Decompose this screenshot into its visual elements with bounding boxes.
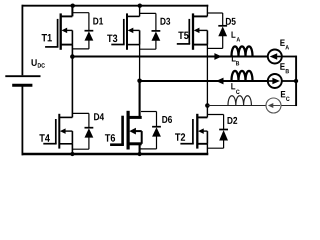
node: phase C node	[205, 103, 210, 108]
diode D6	[141, 112, 161, 149]
transistor T6	[110, 111, 142, 150]
source E_C	[266, 98, 281, 113]
label T4	[39, 134, 50, 141]
wire: leg1 phase A node down to T4 drain	[71, 57, 73, 118]
battery U_DC long plate	[5, 75, 40, 77]
node: bottom rail / leg2 junction	[138, 152, 142, 156]
arrow: phase A current direction	[214, 53, 221, 60]
label D2	[228, 117, 238, 124]
label E_A	[280, 40, 289, 50]
wire: phase B line	[140, 80, 268, 82]
wire: phase A line	[72, 56, 268, 58]
wire: phase A line (source to bus)	[282, 56, 297, 58]
transistor T1	[45, 13, 72, 49]
node: bottom rail / leg1 junction	[70, 152, 74, 156]
diode D1	[72, 13, 93, 49]
label E_B	[280, 63, 289, 73]
arrow: phase B current direction	[216, 78, 224, 85]
wire: phase B line (source to bus)	[282, 80, 297, 82]
wire: leg3 T2 source to bottom rail	[206, 144, 208, 154]
source E_B	[268, 74, 282, 88]
label E_C	[281, 91, 290, 101]
diode D5	[207, 13, 227, 48]
wire: phase C line (source to bus)	[281, 105, 297, 107]
transistor T5	[177, 13, 208, 49]
node: neutral bus / phase B junction	[294, 79, 298, 83]
diode D2	[207, 115, 228, 149]
battery U_DC short plate	[12, 84, 32, 87]
wire: leg2 drain riser (rail to T3)	[139, 6, 141, 17]
inductor L_B	[232, 71, 253, 81]
label D4	[94, 113, 104, 120]
wire: leg2 phase B node down to T6 drain	[139, 81, 141, 117]
transistor T4	[43, 114, 72, 149]
source E_A	[268, 50, 282, 64]
node: top rail / leg1 junction	[71, 3, 75, 7]
wire: neutral bus (right vertical)	[295, 56, 297, 106]
transistor T2	[180, 114, 207, 149]
label D3	[161, 18, 171, 25]
label L_A	[232, 32, 241, 42]
node: phase B node	[137, 79, 142, 84]
wire: leg3 phase C node down to T2 drain	[206, 106, 208, 118]
label T6	[105, 134, 115, 142]
wire: leg1 T1 source to phase A node	[71, 45, 73, 57]
wire: leg3 drain riser (rail corner to T5)	[206, 5, 208, 17]
label L_B	[232, 55, 239, 65]
wire: negative DC rail (bottom)	[22, 153, 209, 156]
diode D3	[140, 13, 161, 49]
wire: leg2 T3 source to phase B node	[139, 45, 141, 81]
transistor T3	[111, 13, 139, 49]
label T5	[178, 32, 188, 39]
label D1	[93, 18, 103, 25]
wire: leg3 T5 source to phase C node	[206, 45, 208, 106]
wire: DC source positive lead (left vertical)	[21, 5, 23, 76]
node: top rail / leg2 junction	[138, 3, 142, 7]
label T3	[107, 35, 117, 43]
label U_DC	[32, 59, 45, 67]
wire: leg1 T4 source to bottom rail	[71, 144, 73, 154]
label L_C	[231, 83, 239, 94]
wire: D6 bottom return to leg2	[140, 148, 142, 150]
inductor L_C	[228, 96, 251, 106]
wire: DC source negative lead (left vertical)	[21, 85, 23, 155]
wire: leg1 drain riser (rail to T1)	[71, 6, 73, 17]
wire: positive DC rail (top)	[22, 5, 209, 7]
label D5	[226, 18, 236, 25]
label D6	[162, 116, 172, 123]
wire: leg2 T6 source to bottom rail	[139, 144, 141, 154]
inductor L_A	[232, 46, 253, 56]
diode D4	[72, 113, 93, 149]
label T2	[175, 133, 185, 141]
node: phase A node	[70, 54, 75, 59]
label T1	[42, 34, 52, 41]
wire: phase C line	[207, 105, 266, 107]
